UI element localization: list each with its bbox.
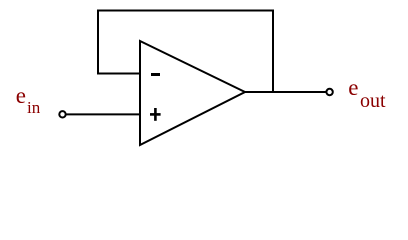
op-amp inverting input minus sign	[151, 73, 160, 76]
node e_in label	[16, 84, 26, 107]
wire inverting input	[97, 73, 140, 75]
wire feedback top	[97, 10, 274, 12]
wire feedback right vertical	[272, 10, 274, 93]
wire input	[66, 113, 140, 115]
terminal input circle	[59, 111, 65, 117]
wire feedback left vertical	[97, 10, 99, 75]
terminal output circle	[326, 89, 332, 95]
wire output	[244, 91, 326, 93]
op-amp U1	[140, 41, 245, 145]
op-amp non-inverting input plus sign	[150, 108, 161, 121]
node e_out label	[348, 76, 358, 99]
